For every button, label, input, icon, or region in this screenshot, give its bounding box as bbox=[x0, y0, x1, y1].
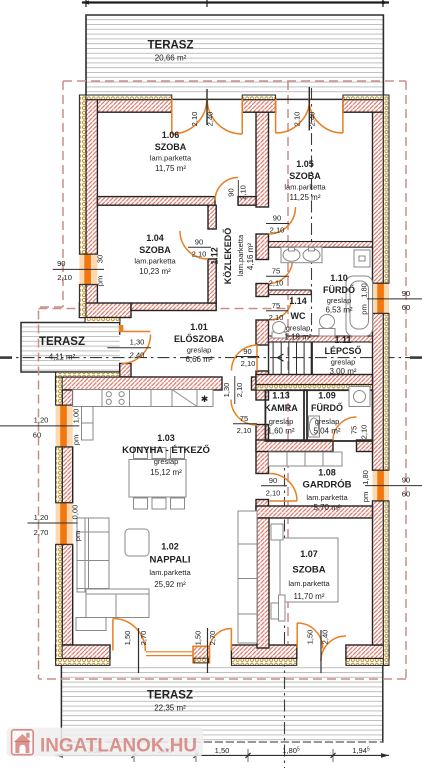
terrace bottom dashed edge bbox=[61, 741, 382, 743]
terrace door 1.07 leaf bbox=[296, 623, 298, 648]
mirror cabinet furdo 1.10 bbox=[354, 250, 370, 267]
wall pier east of door 1.06 bbox=[238, 197, 256, 206]
front door leaf bbox=[122, 331, 151, 333]
svg-text:90: 90 bbox=[57, 259, 65, 268]
door 1.04 swing bbox=[180, 231, 208, 259]
nappali terrace door west arc bbox=[113, 619, 145, 652]
svg-text:lam.parketta: lam.parketta bbox=[236, 234, 245, 276]
wall west of kamra pier bbox=[256, 371, 269, 400]
svg-text:1.05: 1.05 bbox=[296, 159, 314, 169]
wall exterior west lower, between windows bbox=[62, 447, 72, 503]
terrace left (TERASZ 4,11) bbox=[21, 323, 120, 373]
svg-text:1,80: 1,80 bbox=[360, 283, 369, 298]
svg-text:4,16 m²: 4,16 m² bbox=[246, 243, 255, 270]
svg-text:1.01: 1.01 bbox=[190, 322, 208, 332]
terrace door 1.05 swing arcs bbox=[276, 99, 343, 133]
svg-text:✱: ✱ bbox=[201, 394, 209, 404]
wall pier south of front door bbox=[120, 364, 131, 378]
svg-text:LÉPCSŐ: LÉPCSŐ bbox=[324, 345, 361, 356]
door furdo 1.09 swing bbox=[333, 417, 357, 441]
svg-text:greslap: greslap bbox=[187, 346, 212, 355]
dining chairs top bbox=[134, 448, 148, 459]
section marker right bbox=[410, 356, 422, 359]
svg-text:1.02: 1.02 bbox=[161, 542, 179, 552]
svg-text:1.07: 1.07 bbox=[300, 549, 318, 559]
svg-text:TERASZ: TERASZ bbox=[39, 336, 85, 348]
svg-text:3,00 m²: 3,00 m² bbox=[329, 367, 356, 376]
svg-text:1.13: 1.13 bbox=[272, 391, 290, 401]
wall exterior west upper, below window bbox=[86, 285, 97, 306]
front door hinge block bbox=[119, 325, 124, 332]
nappali terrace door east arc bbox=[209, 629, 232, 652]
svg-text:1,20: 1,20 bbox=[34, 513, 49, 522]
wall between furdo 1.10 and wc bbox=[269, 290, 312, 295]
svg-text:4,11 m²: 4,11 m² bbox=[49, 353, 76, 362]
wall between gardrob and 1.07 bbox=[256, 506, 373, 518]
svg-text:lam.parketta: lam.parketta bbox=[150, 154, 192, 163]
svg-text:lam.parketta: lam.parketta bbox=[149, 568, 191, 577]
svg-text:1.03: 1.03 bbox=[157, 433, 175, 443]
svg-text:greslap: greslap bbox=[269, 417, 294, 426]
insulation west wall upper above window bbox=[79, 95, 86, 254]
insulation east wall below window 2 bbox=[383, 501, 389, 666]
wall exterior north, segment west of terrace door 1.06 bbox=[80, 100, 172, 113]
door kamra swing bbox=[231, 400, 257, 426]
svg-text:GARDRÓB: GARDRÓB bbox=[302, 479, 351, 491]
terrace bottom (TERASZ 22,35) bbox=[61, 665, 382, 742]
svg-text:11,25 m²: 11,25 m² bbox=[290, 193, 321, 202]
wall exterior south, west segment bbox=[56, 645, 110, 659]
svg-text:75: 75 bbox=[272, 267, 280, 276]
insulation west wall upper below window bbox=[79, 285, 86, 318]
svg-text:greslap: greslap bbox=[331, 358, 356, 367]
wall exterior west upper, above window bbox=[86, 100, 97, 255]
terrace door 1.07 arc east bbox=[321, 636, 346, 661]
svg-text:75: 75 bbox=[240, 414, 248, 423]
section line vertical middle bbox=[311, 88, 313, 375]
front door swing arc bbox=[122, 335, 151, 364]
wall exterior east, between windows bbox=[373, 313, 384, 470]
insulation north wall east segment bbox=[343, 95, 389, 100]
nightstand upper bbox=[271, 524, 283, 540]
svg-text:FÜRDŐ: FÜRDŐ bbox=[311, 402, 343, 413]
svg-text:6,53 m²: 6,53 m² bbox=[325, 306, 352, 315]
insulation above konyha wall at terrace bbox=[56, 372, 120, 377]
svg-text:90: 90 bbox=[243, 347, 251, 356]
terrace door 1.05 leaves bbox=[276, 99, 343, 133]
terrace top (TERASZ 20,66) bbox=[86, 15, 383, 96]
svg-text:25,92 m²: 25,92 m² bbox=[154, 580, 186, 589]
washing machine furdo 1.09 bbox=[349, 387, 370, 407]
insulation west wall lower above window 1 bbox=[56, 377, 63, 405]
svg-text:1,60 m²: 1,60 m² bbox=[267, 427, 294, 436]
svg-text:1,20: 1,20 bbox=[34, 416, 49, 425]
window west lower 1 (1,20/60) bbox=[56, 405, 73, 447]
svg-text:NAPPALI: NAPPALI bbox=[150, 555, 191, 566]
window east upper (90/60) bbox=[373, 283, 390, 313]
svg-text:20,66 m²: 20,66 m² bbox=[155, 54, 187, 63]
svg-text:2,40: 2,40 bbox=[321, 630, 330, 645]
armchair bbox=[125, 529, 149, 556]
insulation north wall middle segment bbox=[242, 95, 275, 100]
svg-text:SZOBA: SZOBA bbox=[155, 142, 187, 152]
nappali terrace door west leaf bbox=[112, 619, 114, 651]
svg-text:lam.parketta: lam.parketta bbox=[288, 579, 330, 588]
svg-text:60: 60 bbox=[402, 303, 410, 312]
svg-text:1,30: 1,30 bbox=[130, 338, 145, 347]
svg-text:1.06: 1.06 bbox=[162, 130, 180, 140]
svg-text:11,70 m²: 11,70 m² bbox=[294, 592, 325, 601]
bottom dimension line bbox=[55, 754, 389, 756]
tv shelving unit bbox=[238, 511, 257, 643]
wall between 1.05 and furdo 1.10 bbox=[269, 242, 373, 248]
svg-text:2,10: 2,10 bbox=[293, 112, 302, 127]
dining table bbox=[129, 460, 186, 498]
wall between wc and stairs bbox=[269, 336, 373, 342]
wall between 1.06 and 1.05 / corridor east wall pier 1 bbox=[256, 112, 269, 207]
svg-text:1,50: 1,50 bbox=[215, 746, 230, 755]
svg-text:SZOBA: SZOBA bbox=[289, 171, 321, 181]
roof outline dashed jog at left terrace bbox=[39, 307, 64, 679]
svg-text:WC: WC bbox=[291, 311, 306, 321]
svg-text:TERASZ: TERASZ bbox=[148, 40, 194, 52]
door gardrob swing bbox=[270, 474, 298, 502]
wall between 1.04 and eloszoba bbox=[131, 303, 216, 311]
svg-text:2,10: 2,10 bbox=[360, 425, 369, 440]
svg-text:1,19 m²: 1,19 m² bbox=[284, 333, 311, 342]
svg-text:5,70 m²: 5,70 m² bbox=[313, 503, 340, 512]
insulation east wall above window 1 bbox=[383, 95, 389, 283]
svg-text:lam.parketta: lam.parketta bbox=[134, 257, 176, 266]
terrace door 1.06 leaves bbox=[172, 99, 242, 134]
svg-text:1,00: 1,00 bbox=[72, 409, 81, 424]
svg-text:5,04 m²: 5,04 m² bbox=[313, 427, 340, 436]
insulation under wall block 1.04 bbox=[85, 318, 120, 323]
wall exterior south, east segment bbox=[346, 645, 389, 659]
svg-text:1,30: 1,30 bbox=[222, 383, 231, 398]
svg-text:greslap: greslap bbox=[286, 324, 311, 333]
sofa horizontal section bbox=[86, 589, 149, 618]
svg-text:1.10: 1.10 bbox=[330, 273, 348, 283]
svg-text:2,10: 2,10 bbox=[192, 249, 207, 258]
svg-text:1.09: 1.09 bbox=[318, 391, 336, 401]
wall exterior north, segment east of terrace door 1.05 bbox=[343, 100, 384, 113]
svg-text:1.11: 1.11 bbox=[334, 335, 351, 345]
terrace door thresholds bbox=[172, 98, 343, 100]
insulation south wall east segment bbox=[346, 659, 389, 666]
insulation under wall below stairs bbox=[256, 385, 373, 391]
section marker left bbox=[0, 356, 12, 359]
svg-text:2,10: 2,10 bbox=[269, 313, 284, 322]
wall exterior west lower, below window 2 bbox=[62, 544, 72, 645]
upper storey dashed line horizontal bbox=[39, 308, 289, 310]
furdo 1.09 room thin walls bbox=[304, 390, 373, 441]
svg-text:pm: pm bbox=[360, 304, 369, 315]
bed 1.07 bbox=[280, 538, 338, 602]
stairs treads bbox=[273, 342, 304, 375]
svg-text:2,10: 2,10 bbox=[235, 383, 244, 398]
wall block south of room 1.04 bbox=[79, 303, 131, 318]
nappali terrace door east leaf bbox=[230, 629, 232, 651]
roof outline dashed top edge bbox=[63, 80, 406, 82]
door furdo 1.10 bbox=[269, 260, 293, 284]
svg-text:2,10: 2,10 bbox=[241, 359, 256, 368]
svg-text:90: 90 bbox=[195, 238, 203, 247]
svg-text:2,10: 2,10 bbox=[57, 273, 72, 282]
roof outline dashed bottom edge bbox=[39, 678, 407, 680]
wall west of gardrob pier lower bbox=[256, 500, 269, 519]
svg-text:2,10: 2,10 bbox=[237, 426, 252, 435]
svg-text:lam.parketta: lam.parketta bbox=[306, 493, 348, 502]
roof outline dashed left edge upper bbox=[62, 81, 64, 307]
insulation west wall lower below window 2 bbox=[56, 544, 63, 658]
stairs landing edge bbox=[311, 342, 313, 375]
door 1.05 from corridor bbox=[269, 207, 296, 234]
svg-text:2,10: 2,10 bbox=[270, 226, 285, 235]
svg-text:2,40: 2,40 bbox=[206, 112, 215, 127]
svg-text:30: 30 bbox=[96, 255, 105, 263]
section line vertical bottom bbox=[284, 452, 286, 768]
bottom dimension ticks bbox=[132, 753, 336, 758]
svg-text:6,66 m²: 6,66 m² bbox=[185, 355, 212, 364]
wall below stairs bbox=[256, 375, 373, 385]
wall between nappali and 1.07 bbox=[257, 518, 269, 648]
pillar insulation dots bbox=[194, 658, 209, 663]
nightstand lower bbox=[271, 603, 283, 619]
svg-text:2,70: 2,70 bbox=[34, 528, 49, 537]
wall east of 1.04 below door bbox=[208, 259, 216, 303]
corridor east wall pier 3 bbox=[256, 284, 269, 297]
svg-text:1,50: 1,50 bbox=[194, 631, 203, 646]
window east lower (90/60) bbox=[373, 470, 390, 501]
top dimension line bbox=[82, 1, 389, 3]
insulation east wall between windows bbox=[383, 313, 389, 470]
svg-text:0,00: 0,00 bbox=[71, 505, 80, 520]
wall south of eloszoba / north of konyha, west part bbox=[56, 377, 222, 390]
svg-text:90: 90 bbox=[402, 289, 410, 298]
wall below 1.09, east part bbox=[357, 440, 373, 452]
svg-text:75: 75 bbox=[350, 426, 359, 434]
svg-text:SZOBA: SZOBA bbox=[292, 565, 325, 576]
terrace door 1.07 arc west bbox=[297, 623, 323, 649]
svg-text:SZOBA: SZOBA bbox=[139, 245, 171, 255]
svg-text:1.08: 1.08 bbox=[318, 468, 336, 478]
door gardrob leaf bbox=[270, 500, 298, 502]
svg-text:greslap: greslap bbox=[315, 417, 340, 426]
svg-text:KONYHA - ÉTKEZŐ: KONYHA - ÉTKEZŐ bbox=[122, 444, 210, 456]
corridor east wall pier 4 bbox=[256, 320, 269, 345]
sofa vertical section bbox=[77, 518, 109, 592]
wall exterior east, below window 2 bbox=[373, 501, 384, 645]
door 1.06 from corridor bbox=[215, 178, 238, 201]
corridor east wall pier 2 bbox=[256, 234, 269, 260]
svg-text:1.12: 1.12 bbox=[210, 247, 220, 265]
wall exterior east, above window 1 bbox=[373, 112, 384, 283]
svg-text:1.04: 1.04 bbox=[146, 233, 164, 243]
svg-text:90: 90 bbox=[227, 188, 236, 196]
door eloszoba to stair hall arc bbox=[232, 345, 258, 371]
pillar between nappali terrace doors bbox=[193, 646, 210, 663]
watermark background box bbox=[7, 728, 203, 757]
nappali fixed glazing sill bbox=[146, 652, 193, 656]
wall west of gardrob pier upper bbox=[256, 425, 269, 474]
svg-text:2,40: 2,40 bbox=[130, 350, 145, 359]
kitchen counter left run bbox=[82, 407, 94, 441]
kitchen counter top run bbox=[73, 390, 213, 407]
insulation south wall west segment bbox=[56, 659, 110, 666]
svg-text:2,70: 2,70 bbox=[139, 631, 148, 646]
wall exterior south, middle segment bbox=[231, 645, 296, 659]
door wc 1.14 bbox=[269, 297, 293, 321]
svg-text:1,80: 1,80 bbox=[361, 470, 370, 485]
toilet furdo 1.10 bbox=[319, 329, 335, 337]
window west lower 2 (1,20/2,70) bbox=[56, 503, 73, 545]
wall east of 1.04 above door bbox=[208, 205, 216, 229]
svg-text:90: 90 bbox=[269, 476, 277, 485]
svg-text:pm: pm bbox=[73, 531, 82, 542]
insulation south wall middle segment bbox=[231, 659, 296, 666]
wall exterior west lower, above window 1 bbox=[62, 390, 72, 405]
flue recess 1.07 bbox=[279, 595, 286, 621]
kamra room thin walls bbox=[265, 390, 307, 441]
svg-text:2,10: 2,10 bbox=[266, 489, 281, 498]
svg-text:60: 60 bbox=[33, 431, 41, 440]
svg-text:75: 75 bbox=[272, 301, 280, 310]
insulation north wall west segment bbox=[80, 95, 172, 100]
gardrob closet row bbox=[269, 452, 343, 466]
upper storey dashed line vertical right bbox=[287, 81, 289, 661]
svg-text:FÜRDŐ: FÜRDŐ bbox=[323, 284, 355, 295]
svg-text:pm: pm bbox=[72, 435, 81, 446]
svg-text:ELŐSZOBA: ELŐSZOBA bbox=[174, 333, 225, 344]
svg-text:TERASZ: TERASZ bbox=[147, 690, 193, 702]
washbasin pair furdo 1.10 bbox=[281, 247, 322, 263]
watermark logo bbox=[12, 730, 34, 755]
kitchen corner cabinet diagonal bbox=[172, 390, 197, 407]
door eloszoba to stair hall leaf bbox=[256, 345, 258, 371]
svg-text:2,70: 2,70 bbox=[208, 631, 217, 646]
toilet wc 1.14 bbox=[272, 332, 286, 338]
kitchen hob burners bbox=[106, 392, 111, 397]
window west upper (90) bbox=[79, 254, 97, 284]
svg-text:10,23 m²: 10,23 m² bbox=[139, 267, 171, 276]
svg-text:60: 60 bbox=[402, 490, 410, 499]
svg-text:22,35 m²: 22,35 m² bbox=[154, 704, 186, 713]
svg-text:2,40: 2,40 bbox=[308, 112, 317, 127]
door frame extension lines south bbox=[139, 628, 322, 673]
svg-text:KÖZLEKEDŐ: KÖZLEKEDŐ bbox=[222, 228, 233, 285]
roof outline dashed right edge bbox=[405, 81, 407, 679]
svg-text:1.14: 1.14 bbox=[289, 296, 307, 306]
svg-text:15,12 m²: 15,12 m² bbox=[150, 468, 182, 477]
svg-text:INGATLANOK.HU: INGATLANOK.HU bbox=[40, 735, 197, 757]
svg-text:1,50: 1,50 bbox=[123, 631, 132, 646]
svg-text:greslap: greslap bbox=[327, 296, 352, 305]
stairs side edge bbox=[268, 342, 270, 375]
dining chairs bottom bbox=[134, 498, 148, 509]
svg-text:2,10: 2,10 bbox=[269, 279, 284, 288]
washbasin furdo 1.09 bbox=[309, 416, 320, 437]
svg-text:2,10: 2,10 bbox=[239, 185, 248, 200]
svg-text:greslap: greslap bbox=[154, 457, 179, 466]
svg-text:1,50: 1,50 bbox=[306, 630, 315, 645]
wall between 1.06 and 1.04 bbox=[97, 197, 215, 206]
wall south of eloszoba, east part bbox=[252, 377, 269, 390]
svg-text:KAMRA: KAMRA bbox=[264, 403, 298, 413]
svg-text:pm: pm bbox=[96, 276, 105, 287]
stairs up arrow bbox=[278, 354, 284, 361]
svg-text:90: 90 bbox=[273, 214, 281, 223]
section line A-A horizontal bbox=[0, 357, 422, 359]
bathtub bbox=[346, 276, 373, 336]
wall exterior north, segment between terrace doors bbox=[242, 100, 275, 113]
svg-text:90: 90 bbox=[402, 476, 410, 485]
wall below kamra and 1.09, west part bbox=[256, 440, 333, 452]
svg-text:2,10: 2,10 bbox=[190, 112, 199, 127]
insulation west wall lower between windows bbox=[56, 447, 63, 503]
svg-text:11,75 m²: 11,75 m² bbox=[155, 164, 186, 173]
svg-text:pm: pm bbox=[361, 492, 370, 503]
svg-text:lam.parketta: lam.parketta bbox=[284, 183, 326, 192]
terrace door 1.06 swing arcs bbox=[172, 99, 242, 134]
